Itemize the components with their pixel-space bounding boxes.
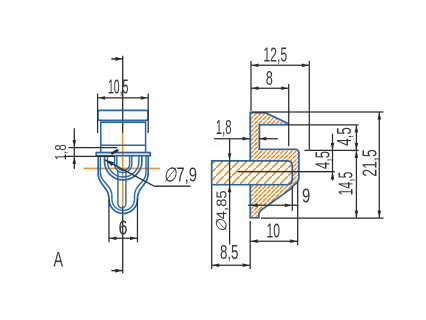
small U outer ring	[115, 156, 132, 173]
vertical centerline orange	[122, 133, 124, 206]
svg-text:10: 10	[267, 220, 281, 242]
extension line E1 part top	[252, 111, 384, 113]
extension line E3 flange top	[305, 149, 359, 151]
small U inner ring	[117, 156, 130, 171]
neck rectangle	[101, 122, 146, 152]
dimension 8,5	[212, 186, 251, 270]
dimension 1,8 right view	[214, 138, 278, 140]
oblique tick on lip	[111, 150, 118, 154]
dimension 1,8 left	[64, 128, 117, 169]
large U inner arc	[108, 156, 139, 177]
pin (section)	[212, 161, 293, 185]
lip rectangle	[96, 153, 150, 156]
dimension 6	[109, 199, 138, 242]
cap rectangle	[98, 110, 148, 120]
dimension 4,5 second	[332, 134, 334, 181]
dimension 8 top	[251, 84, 289, 146]
dome inner wall	[100, 156, 146, 211]
svg-text:1,8: 1,8	[216, 117, 232, 139]
dimension 12,5	[251, 61, 309, 150]
cap lower edge line	[100, 121, 146, 123]
svg-text:21,5: 21,5	[359, 149, 381, 177]
svg-text:12,5: 12,5	[263, 44, 287, 66]
horizontal centerline orange	[84, 167, 160, 169]
svg-text:A: A	[54, 249, 64, 272]
large U outer arc	[105, 156, 142, 180]
svg-text:6: 6	[119, 218, 128, 240]
extension line E2	[288, 124, 359, 126]
neck inner bottom line	[101, 144, 146, 146]
dimension 14,5	[355, 150, 359, 158]
svg-text:∅7,9: ∅7,9	[163, 164, 197, 186]
svg-text:10,5: 10,5	[108, 76, 129, 98]
dimension 10,5	[98, 94, 149, 133]
svg-text:1,8: 1,8	[53, 144, 70, 160]
svg-text:4,5: 4,5	[312, 151, 334, 169]
dome outer wall and stem outline	[98, 156, 148, 214]
leader diameter 7,9	[105, 160, 191, 186]
section plane line upper segment	[122, 56, 124, 133]
svg-text:8,5: 8,5	[220, 242, 239, 264]
extension line E7 part bottom	[261, 217, 384, 219]
svg-text:∅4,85: ∅4,85	[213, 190, 230, 232]
body section outline with hatch	[250, 112, 299, 217]
pin centerline	[238, 171, 335, 173]
section arrow bottom	[111, 269, 122, 273]
svg-text:9: 9	[302, 186, 310, 208]
svg-text:8: 8	[266, 68, 273, 90]
dimension 9	[248, 187, 299, 211]
section plane line lower segment	[122, 206, 124, 273]
dimension diameter 4,85	[229, 139, 231, 245]
svg-text:4,5: 4,5	[334, 127, 356, 146]
dimension 4,5 first	[355, 125, 357, 218]
section arrow top	[111, 57, 122, 61]
stem slot	[118, 171, 126, 208]
dimension 21,5	[378, 112, 380, 218]
dimension 10	[250, 182, 298, 245]
svg-text:14,5: 14,5	[335, 172, 357, 196]
